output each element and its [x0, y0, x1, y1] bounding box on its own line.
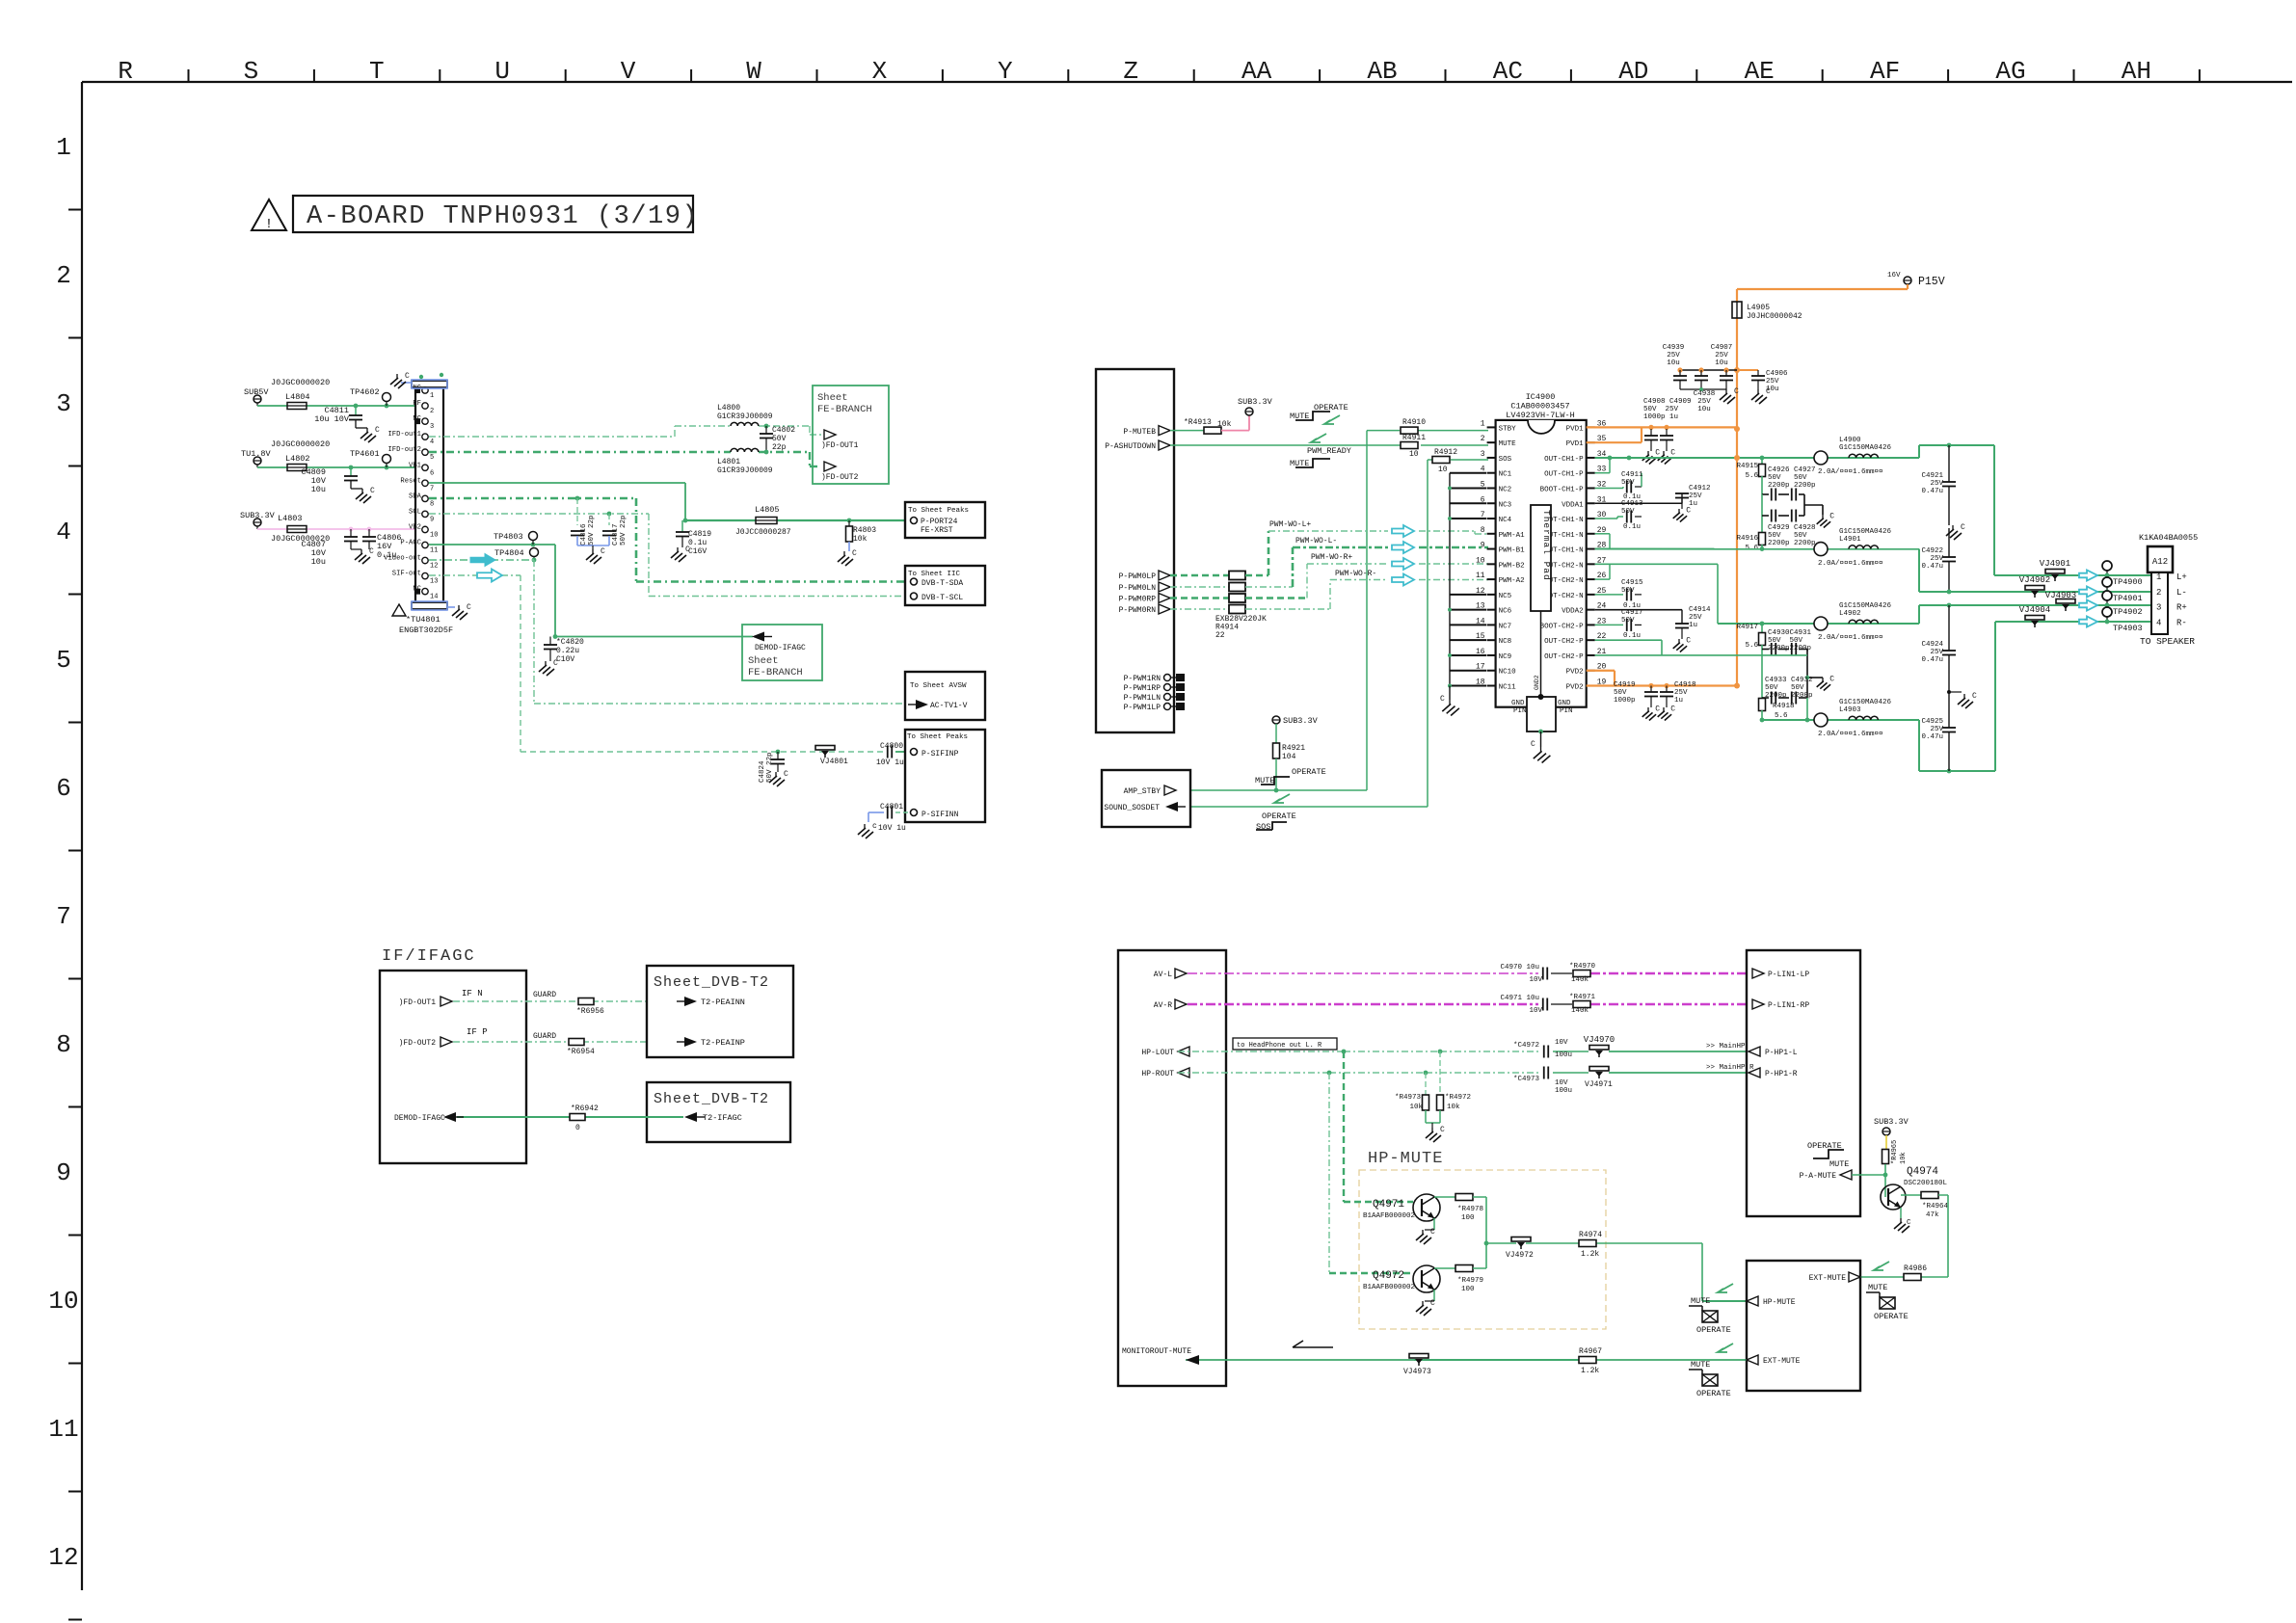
svg-text:TP4903: TP4903: [2113, 624, 2143, 633]
svg-text:0.22u: 0.22u: [556, 647, 579, 655]
svg-text:C4914: C4914: [1689, 606, 1711, 614]
svg-text:10: 10: [1409, 450, 1419, 459]
jumper VJ4972: [1506, 1237, 1534, 1261]
wire MUTE net P-ASHUTDOWN to pin2: [1170, 444, 1488, 446]
svg-text:*R4970: *R4970: [1569, 963, 1596, 971]
wire SUB5V to RF pin: [257, 404, 421, 409]
svg-text:SCL: SCL: [409, 508, 421, 516]
svg-text:SOUND_SOSDET: SOUND_SOSDET: [1104, 804, 1160, 812]
wire HP-ROUT net: [1178, 1071, 1539, 1076]
svg-text:OUT-CH1-P: OUT-CH1-P: [1544, 456, 1584, 464]
undo arrow symbol: [1293, 1341, 1333, 1347]
svg-text:C16V: C16V: [688, 547, 707, 556]
svg-text:T2-PEAINP: T2-PEAINP: [701, 1038, 745, 1048]
svg-text:IF N: IF N: [462, 989, 483, 998]
jumper VJ4970: [1584, 1035, 1747, 1057]
svg-text:9: 9: [56, 1158, 71, 1187]
svg-text:AB: AB: [1367, 57, 1397, 86]
svg-text:7: 7: [56, 902, 71, 931]
thermal pad: [1531, 505, 1552, 611]
svg-text:1000p 1u: 1000p 1u: [1643, 413, 1678, 421]
svg-text:VJ4901: VJ4901: [2040, 559, 2070, 569]
svg-text:C10V: C10V: [556, 655, 574, 664]
svg-text:R4915: R4915: [1736, 463, 1758, 470]
inductor L4905: [1732, 302, 1802, 321]
svg-text:NC2: NC2: [1499, 486, 1512, 493]
sheet pin P-LIN1-LP: [1752, 969, 1809, 979]
teal arrow L+: [2079, 571, 2097, 581]
capacitor C4908: [1642, 429, 1661, 465]
sheet pin AV-R: [1154, 999, 1187, 1010]
svg-text:VJ4902: VJ4902: [2019, 575, 2050, 585]
inductor L4801: [717, 448, 773, 475]
svg-text:IF P: IF P: [467, 1027, 488, 1037]
wire OUT-CH1-P net: [1595, 443, 1994, 473]
svg-text:50V 22p: 50V 22p: [588, 515, 596, 545]
svg-text:IFD-out2: IFD-out2: [387, 446, 421, 454]
svg-text:J0JHC0000042: J0JHC0000042: [1747, 312, 1802, 321]
svg-text:10: 10: [1476, 556, 1485, 565]
svg-text:NC1: NC1: [1499, 471, 1512, 479]
sheet pins P-PWM0 group: [1119, 571, 1170, 615]
svg-text:10k: 10k: [1447, 1104, 1460, 1111]
svg-text:EXT-MUTE: EXT-MUTE: [1809, 1274, 1847, 1283]
svg-text:140k: 140k: [1571, 1007, 1589, 1015]
sheet pin T2-IFAGC: [684, 1112, 742, 1123]
svg-text:P-LIN1-RP: P-LIN1-RP: [1768, 1001, 1809, 1010]
wire R4913 to SUB3.3V (pink): [1221, 415, 1249, 431]
sheet pin IFD-OUT2: [399, 1037, 452, 1048]
svg-text:5: 5: [56, 646, 71, 675]
svg-text:2200p 2200p: 2200p 2200p: [1765, 692, 1813, 700]
svg-text:T2-IFAGC: T2-IFAGC: [703, 1113, 742, 1123]
svg-text:*R4972: *R4972: [1445, 1094, 1471, 1102]
svg-text:7: 7: [430, 485, 434, 492]
jumper VJ4801: [815, 746, 848, 767]
svg-text:PWM-WO-R+: PWM-WO-R+: [1311, 553, 1352, 562]
svg-text:C4906: C4906: [1766, 370, 1788, 378]
svg-text:1u: 1u: [1689, 622, 1697, 629]
teal arrow PWM-WO-L+: [1392, 525, 1414, 537]
capacitor C4807: [301, 529, 361, 567]
power terminal TU1.8V: [241, 439, 330, 467]
svg-text:SUB3.3V: SUB3.3V: [240, 511, 276, 520]
svg-text:*R6954: *R6954: [567, 1048, 595, 1056]
svg-text:R4918: R4918: [1773, 703, 1795, 710]
svg-text:Sheet: Sheet: [817, 392, 848, 404]
svg-text:C: C: [852, 549, 857, 558]
svg-text:AMP_STBY: AMP_STBY: [1124, 787, 1161, 796]
resistor R4910: [1401, 418, 1426, 434]
power terminal SUB3.3V: [240, 511, 330, 544]
sheet pin HP-MUTE: [1718, 1284, 1796, 1307]
capacitor C4817: [602, 514, 627, 545]
svg-text:C4800: C4800: [880, 742, 903, 751]
svg-text:)FD-OUT1: )FD-OUT1: [821, 441, 859, 450]
capacitor C4907: [1711, 344, 1739, 404]
svg-text:C4921: C4921: [1921, 472, 1943, 480]
svg-text:c: c: [872, 822, 877, 831]
svg-text:K1KA04BA0055: K1KA04BA0055: [2139, 533, 2198, 543]
svg-text:1.2k: 1.2k: [1581, 1250, 1599, 1259]
svg-text:B1AAFB000002: B1AAFB000002: [1363, 1212, 1415, 1220]
svg-text:50V 22p: 50V 22p: [766, 752, 774, 783]
svg-text:2: 2: [2156, 588, 2161, 598]
svg-text:1: 1: [2156, 572, 2161, 582]
svg-text:TP4803: TP4803: [494, 532, 523, 542]
decoupling rail with C4939 C4907 C4938: [1677, 367, 1737, 372]
wire P-A-MUTE to base: [1852, 1173, 1887, 1178]
wire OUT-CH2-P net: [1595, 622, 2151, 773]
svg-text:PWM-B1: PWM-B1: [1499, 547, 1526, 555]
capacitor C4800: [876, 742, 910, 767]
svg-text:AC: AC: [1493, 57, 1523, 86]
capacitor C4816: [571, 498, 596, 545]
sheet box To Sheet IIC: [905, 566, 985, 605]
svg-text:C4802: C4802: [772, 426, 795, 435]
svg-text:13: 13: [430, 578, 438, 586]
capacitor C4921: [1921, 445, 1965, 540]
svg-text:50V: 50V: [1621, 617, 1635, 625]
svg-text:PWM-B2: PWM-B2: [1499, 562, 1525, 570]
connector bottom blue frame and ground: [412, 601, 471, 620]
svg-text:3: 3: [1481, 450, 1485, 459]
svg-text:C: C: [1972, 692, 1977, 701]
svg-text:DEMOD-IFAGC: DEMOD-IFAGC: [394, 1114, 445, 1123]
upper P-LIN block: [1747, 950, 1860, 1216]
svg-text:2.0A/¤¤¤1.6mm¤¤: 2.0A/¤¤¤1.6mm¤¤: [1818, 731, 1883, 738]
resistor R4986: [1904, 1264, 1927, 1281]
svg-text:V: V: [621, 57, 636, 86]
wire P-PWM0RP to R4914 (bold dash): [1170, 597, 1229, 599]
capacitor C4806: [355, 529, 402, 564]
svg-text:TP4900: TP4900: [2113, 577, 2143, 587]
wire PWM-WO-R- net: [1245, 570, 1488, 609]
svg-text:GND: GND: [1511, 700, 1525, 707]
svg-text:NC6: NC6: [1499, 608, 1512, 616]
svg-text:0.47u: 0.47u: [1921, 733, 1943, 741]
svg-text:1u: 1u: [1689, 500, 1697, 508]
svg-text:P-SIFINP: P-SIFINP: [921, 750, 959, 758]
wire HP-LOUT net: [1178, 1050, 1539, 1054]
sheet pin P-ASHUTDOWN: [1105, 440, 1170, 451]
svg-text:L+: L+: [2176, 572, 2187, 582]
capacitor C4971 and resistor R4971: [1500, 994, 1595, 1015]
svg-text:25V: 25V: [1930, 555, 1943, 563]
jumper VJ4973: [1403, 1354, 1431, 1377]
svg-text:50V 50V: 50V 50V: [1768, 637, 1803, 645]
jumper VJ4902: [2019, 575, 2050, 598]
svg-text:R: R: [118, 57, 133, 86]
svg-text:L4901: L4901: [1839, 536, 1861, 544]
sheet pin P-HP1-L: [1749, 1047, 1798, 1057]
svg-text:22: 22: [1215, 631, 1225, 640]
svg-text:NC4: NC4: [1499, 517, 1512, 524]
svg-text:25V: 25V: [1674, 689, 1688, 697]
svg-text:C4925: C4925: [1921, 718, 1943, 726]
svg-text:P-A-MUTE: P-A-MUTE: [1800, 1172, 1837, 1181]
svg-text:OUT-CH2-P: OUT-CH2-P: [1544, 653, 1584, 661]
capacitor C4824: [759, 750, 788, 786]
mute-operate step symbol 1: [1290, 403, 1348, 424]
svg-text:L4905: L4905: [1747, 304, 1770, 312]
svg-text:SUB5V: SUB5V: [244, 387, 269, 397]
svg-text:L4804: L4804: [285, 392, 310, 402]
svg-text:C: C: [1440, 1126, 1445, 1134]
svg-text:P-HP1-L: P-HP1-L: [1765, 1049, 1798, 1057]
resistor R4918 with C4933 C4932: [1759, 677, 1813, 722]
svg-text:VJ4801: VJ4801: [820, 758, 848, 766]
resistor R4921 pullup: [1272, 716, 1319, 790]
teal arrow PWM-WO-R+: [1392, 558, 1414, 570]
sheet pin HP-ROUT: [1141, 1068, 1189, 1078]
ground Q4972 emitter: [1416, 1290, 1435, 1316]
svg-text:PVD2: PVD2: [1566, 669, 1584, 677]
wire P-PWM0LP to R4914 (bold dash): [1170, 574, 1229, 577]
sheet box Sheet_DVB-T2 upper: [647, 966, 793, 1057]
svg-text:BOOT-CH2-P: BOOT-CH2-P: [1540, 623, 1585, 630]
svg-text:VJ4970: VJ4970: [1584, 1035, 1615, 1045]
svg-text:C4801: C4801: [880, 803, 903, 811]
svg-text:AE: AE: [1745, 57, 1775, 86]
svg-text:VDDA2: VDDA2: [1562, 608, 1584, 616]
ground Q4974 emitter: [1894, 1208, 1911, 1233]
svg-text:C4926 C4927: C4926 C4927: [1768, 466, 1816, 474]
svg-text:10V 1u: 10V 1u: [876, 758, 904, 767]
sheet pin IFD-OUT1: [399, 997, 452, 1007]
teal arrow R-: [2079, 617, 2097, 627]
sheet pins P-PWM1 group: [1124, 674, 1185, 712]
svg-text:TU1.8V: TU1.8V: [241, 449, 272, 459]
svg-text:L4900: L4900: [1839, 437, 1861, 444]
svg-text:*R6942: *R6942: [571, 1104, 599, 1113]
svg-text:2: 2: [56, 261, 71, 290]
ground for C4816 C4817: [577, 545, 609, 564]
capacitor C4909: [1643, 398, 1692, 465]
svg-text:10u: 10u: [1715, 359, 1728, 367]
svg-text:!: !: [265, 217, 273, 232]
svg-text:C4971 10u: C4971 10u: [1500, 995, 1539, 1002]
sheet pin EXT-MUTE out: [1809, 1262, 1889, 1283]
svg-text:12: 12: [430, 563, 438, 571]
svg-text:DEMOD-IFAGC: DEMOD-IFAGC: [755, 644, 806, 652]
svg-text:0.1u: 0.1u: [1623, 632, 1641, 640]
teal arrow Video-out: [470, 554, 495, 567]
wire Reset net to P-PORT24: [429, 483, 913, 522]
svg-text:L4802: L4802: [285, 454, 310, 464]
transistor Q4971: [1363, 1194, 1440, 1221]
svg-text:J0JGC0000020: J0JGC0000020: [271, 378, 330, 387]
capacitor C4802: [760, 424, 795, 455]
svg-text:NC8: NC8: [1499, 638, 1512, 646]
capacitor C4913 boot ch1n: [1595, 500, 1643, 531]
resistor R4965 pullup: [1882, 1135, 1909, 1197]
svg-text:OPERATE: OPERATE: [1874, 1312, 1909, 1321]
svg-text:C4912: C4912: [1689, 485, 1711, 492]
svg-text:AH: AH: [2122, 57, 2151, 86]
svg-text:AG: AG: [1995, 57, 2025, 86]
svg-text:To Sheet Peaks: To Sheet Peaks: [908, 507, 969, 515]
svg-text:L-: L-: [2176, 588, 2187, 598]
sheet pin P-A-MUTE: [1800, 1170, 1852, 1181]
svg-text:100: 100: [1461, 1214, 1475, 1222]
sheet pin P-HP1-R: [1749, 1068, 1798, 1078]
svg-text:DSC200180L: DSC200180L: [1904, 1180, 1948, 1187]
svg-text:MUTE: MUTE: [1499, 440, 1517, 448]
svg-text:>> MainHP: >> MainHP: [1706, 1043, 1746, 1051]
svg-text:1: 1: [430, 392, 434, 400]
svg-text:to HeadPhone out L. R: to HeadPhone out L. R: [1237, 1042, 1322, 1050]
svg-text:25V: 25V: [1930, 726, 1943, 733]
svg-text:140k: 140k: [1571, 976, 1589, 984]
svg-text:Z: Z: [1123, 57, 1138, 86]
svg-text:NC7: NC7: [1499, 623, 1512, 630]
svg-text:LV4923VH-7LW-H: LV4923VH-7LW-H: [1506, 411, 1574, 420]
svg-text:U: U: [494, 57, 510, 86]
svg-text:SUB3.3V: SUB3.3V: [1283, 716, 1319, 726]
transistor Q4972: [1363, 1265, 1440, 1292]
svg-text:TP4602: TP4602: [350, 387, 380, 397]
svg-text:R4986: R4986: [1904, 1264, 1927, 1273]
svg-text:C: C: [1655, 705, 1660, 714]
sheet box Sheet_DVB-T2 lower: [647, 1082, 790, 1142]
svg-text:C4930C4931: C4930C4931: [1768, 629, 1812, 637]
resistor R4974: [1579, 1231, 1602, 1259]
svg-text:SIF-out: SIF-out: [392, 571, 421, 578]
power terminal SUB3.3V pullup: [1238, 397, 1273, 415]
svg-text:P-AGC: P-AGC: [400, 540, 421, 547]
svg-text:TP4902: TP4902: [2113, 607, 2143, 617]
svg-text:2.0A/¤¤¤1.6mm¤¤: 2.0A/¤¤¤1.6mm¤¤: [1818, 560, 1883, 568]
svg-text:10u: 10u: [1766, 386, 1779, 393]
svg-text:AV-R: AV-R: [1154, 1001, 1172, 1010]
svg-text:C: C: [375, 426, 380, 435]
svg-text:50V: 50V: [1621, 508, 1635, 516]
svg-text:0.47u: 0.47u: [1921, 563, 1943, 571]
resistor R4911: [1401, 434, 1426, 459]
svg-text:10V 1u: 10V 1u: [878, 824, 906, 833]
capacitor C4972 polarized: [1513, 1039, 1589, 1059]
svg-text:*R4978: *R4978: [1457, 1206, 1483, 1213]
svg-text:PWM-A1: PWM-A1: [1499, 532, 1526, 540]
test point TP4602: [350, 387, 391, 406]
ground for R4973 R4972: [1426, 1123, 1445, 1142]
svg-text:AA: AA: [1241, 57, 1272, 86]
svg-text:P-HP1-R: P-HP1-R: [1765, 1070, 1798, 1078]
wire SIF-out net (dash with teal open arrow): [429, 575, 884, 752]
inductor L4805: [735, 505, 791, 537]
capacitor C4801: [858, 803, 910, 838]
resistor R4913: [1184, 418, 1232, 434]
svg-text:50V: 50V: [1621, 587, 1635, 595]
svg-text:10u: 10u: [311, 557, 326, 567]
resistor R6942: [570, 1104, 599, 1132]
resistor R6956: [576, 998, 604, 1017]
svg-text:10k: 10k: [1217, 420, 1232, 429]
svg-text:0.1u: 0.1u: [1623, 523, 1641, 531]
sheet pin HP-LOUT: [1141, 1047, 1189, 1057]
svg-text:3: 3: [56, 389, 71, 418]
svg-text:1: 1: [1481, 419, 1485, 428]
svg-text:*R6956: *R6956: [576, 1007, 604, 1016]
svg-text:8: 8: [56, 1030, 71, 1059]
capacitor C4922: [1921, 528, 1956, 594]
svg-text:47k: 47k: [1926, 1211, 1939, 1219]
svg-text:C1AB00003457: C1AB00003457: [1510, 402, 1569, 412]
svg-text:C4913: C4913: [1621, 500, 1643, 508]
svg-text:P-SIFINN: P-SIFINN: [921, 811, 959, 819]
connector reference labels *TU4801 ENGBT302D5F: [392, 604, 453, 635]
sos-operate step symbol: [1256, 811, 1296, 832]
NC pin bus and ground: [1440, 473, 1486, 716]
test point TP4601: [350, 449, 391, 467]
svg-text:NC5: NC5: [1499, 593, 1512, 600]
svg-text:0.47u: 0.47u: [1921, 656, 1943, 664]
svg-text:OUT-CH1-P: OUT-CH1-P: [1544, 471, 1584, 479]
svg-text:P-LIN1-LP: P-LIN1-LP: [1768, 971, 1809, 979]
wire P-AGC net to DEMOD-IFAGC: [429, 543, 753, 639]
svg-text:C: C: [1430, 1299, 1435, 1308]
capacitor C4917 boot ch2p: [1595, 609, 1643, 640]
resistor R4803: [838, 520, 876, 566]
svg-text:3: 3: [430, 423, 434, 431]
sheet box To Sheet AVSW: [905, 672, 985, 720]
svg-text:C4917: C4917: [1621, 609, 1643, 617]
wire Video-out net (dash-dot with teal arrow): [429, 560, 910, 704]
svg-text:VJ4973: VJ4973: [1403, 1368, 1431, 1376]
inductor L4901: [1818, 528, 1892, 568]
sheet box To Sheet Peaks (SIF): [905, 730, 985, 822]
svg-text:IC4900: IC4900: [1526, 392, 1556, 402]
svg-text:*R4965: *R4965: [1891, 1140, 1899, 1164]
resistor R4979: [1434, 1265, 1486, 1294]
wire collector join net: [1484, 1197, 1747, 1301]
svg-text:100u: 100u: [1555, 1087, 1572, 1095]
svg-text:Reset: Reset: [400, 477, 421, 485]
svg-text:X: X: [872, 57, 888, 86]
wire OUT-CH2-N net: [1595, 564, 2151, 624]
svg-text:C: C: [467, 603, 471, 612]
wire IFD-out2 net (dash): [429, 452, 821, 466]
svg-text:VDDA1: VDDA1: [1562, 501, 1584, 509]
capacitor C4912: [1673, 485, 1711, 522]
svg-text:Video-out: Video-out: [384, 555, 421, 563]
test point TP4901: [2102, 577, 2143, 603]
power terminal SUB5V: [244, 378, 330, 406]
circle symbol L4900 line: [1814, 451, 1828, 465]
svg-text:MONITOROUT-MUTE: MONITOROUT-MUTE: [1122, 1347, 1191, 1356]
svg-text:R4803: R4803: [853, 526, 876, 535]
wire OUT-CH1-N net: [1595, 534, 1949, 592]
mute flag EXT upper: [1866, 1283, 1909, 1321]
svg-text:AD: AD: [1618, 57, 1648, 86]
capacitor C4819: [671, 520, 711, 562]
svg-text:C4918: C4918: [1674, 681, 1696, 689]
svg-text:10: 10: [1438, 466, 1448, 474]
svg-text:0.47u: 0.47u: [1921, 488, 1943, 495]
wire AV-R net (magenta): [1188, 1003, 1747, 1006]
svg-text:10k: 10k: [1409, 1104, 1423, 1111]
resistor R6954: [567, 1039, 595, 1057]
wire TU1.8V to VB1 pin: [257, 466, 421, 470]
amp interface block: [1096, 369, 1174, 732]
svg-text:10: 10: [430, 531, 438, 539]
svg-text:C: C: [1670, 449, 1675, 458]
svg-text:P15V: P15V: [1918, 276, 1945, 288]
svg-text:C4817: C4817: [612, 523, 620, 545]
audio source block: [1118, 950, 1226, 1386]
svg-text:C: C: [784, 770, 788, 779]
